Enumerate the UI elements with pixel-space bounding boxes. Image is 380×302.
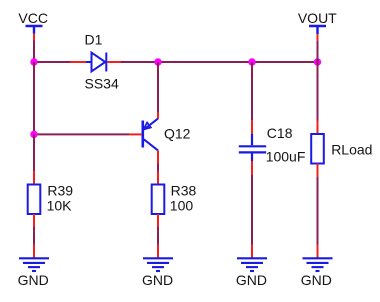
- svg-text:Q12: Q12: [164, 125, 191, 141]
- pin 1 of C18: [251, 120, 253, 134]
- wire collector to R38: [157, 164, 159, 172]
- power port VCC: [26, 26, 43, 34]
- wire base from left branch: [34, 133, 129, 135]
- wire VOUT to top rail: [317, 34, 319, 62]
- svg-text:VOUT: VOUT: [298, 10, 337, 26]
- svg-text:D1: D1: [85, 32, 103, 48]
- svg-text:100: 100: [170, 197, 194, 213]
- resistor RLoad: [311, 134, 324, 164]
- pin 2 of R38: [157, 214, 159, 227]
- junction at VOUT column: [314, 58, 321, 65]
- svg-text:RLoad: RLoad: [331, 142, 372, 158]
- ground stub R38: [157, 245, 159, 258]
- pin emitter of Q12: [157, 112, 159, 119]
- wire top rail to RLoad: [317, 62, 319, 121]
- junction at base node: [30, 131, 37, 138]
- pin collector of Q12: [157, 150, 159, 163]
- junction at VCC / top rail: [30, 58, 37, 65]
- pin 1 of R39: [33, 171, 35, 185]
- pin 1 anode of D1: [70, 61, 86, 63]
- wire top rail middle: [121, 61, 252, 63]
- pin 2 of R39: [33, 214, 35, 227]
- svg-text:10K: 10K: [47, 197, 73, 213]
- pin 1 of RLoad: [317, 121, 319, 135]
- svg-text:GND: GND: [236, 272, 267, 288]
- ground symbol GND1: [19, 258, 49, 271]
- pin 1 of R38: [157, 172, 159, 185]
- ground stub R39: [33, 245, 35, 258]
- capacitor C18: [239, 134, 266, 161]
- wire C18 to GND: [251, 175, 253, 245]
- svg-text:VCC: VCC: [18, 10, 48, 26]
- pin 2 of C18: [251, 161, 253, 175]
- resistor R38: [152, 185, 165, 215]
- wire R39 to GND: [33, 227, 35, 245]
- wire R38 to GND: [157, 227, 159, 245]
- wire left branch lower: [33, 134, 35, 171]
- wire top rail right: [252, 61, 318, 63]
- wire top rail left: [34, 61, 70, 63]
- svg-text:GND: GND: [18, 272, 49, 288]
- junction at emitter column: [154, 58, 161, 65]
- diode D1: [86, 53, 106, 72]
- svg-text:GND: GND: [142, 272, 173, 288]
- pin 2 cathode of D1: [107, 61, 121, 63]
- svg-text:100uF: 100uF: [266, 149, 306, 165]
- wire top rail to C18: [251, 62, 253, 120]
- resistor R39: [28, 185, 41, 215]
- transistor Q12: [143, 119, 158, 151]
- power port VOUT: [309, 26, 326, 34]
- svg-text:C18: C18: [267, 125, 293, 141]
- pin 2 of RLoad: [317, 164, 319, 178]
- ground symbol GND3: [237, 258, 267, 271]
- ground symbol GND4: [303, 258, 333, 271]
- ground symbol GND2: [143, 258, 173, 271]
- ground stub C18: [251, 245, 253, 258]
- ground stub RLoad: [317, 245, 319, 258]
- junction at C18 column: [248, 58, 255, 65]
- wire left branch upper: [33, 62, 35, 134]
- wire RLoad to GND: [317, 177, 319, 245]
- svg-text:GND: GND: [301, 272, 332, 288]
- svg-text:SS34: SS34: [85, 75, 119, 91]
- svg-text:R38: R38: [171, 183, 197, 199]
- pin base of Q12: [129, 133, 142, 135]
- wire top rail to Q12 emitter: [157, 62, 159, 112]
- svg-text:R39: R39: [47, 183, 73, 199]
- wire VCC to top rail: [33, 34, 35, 63]
